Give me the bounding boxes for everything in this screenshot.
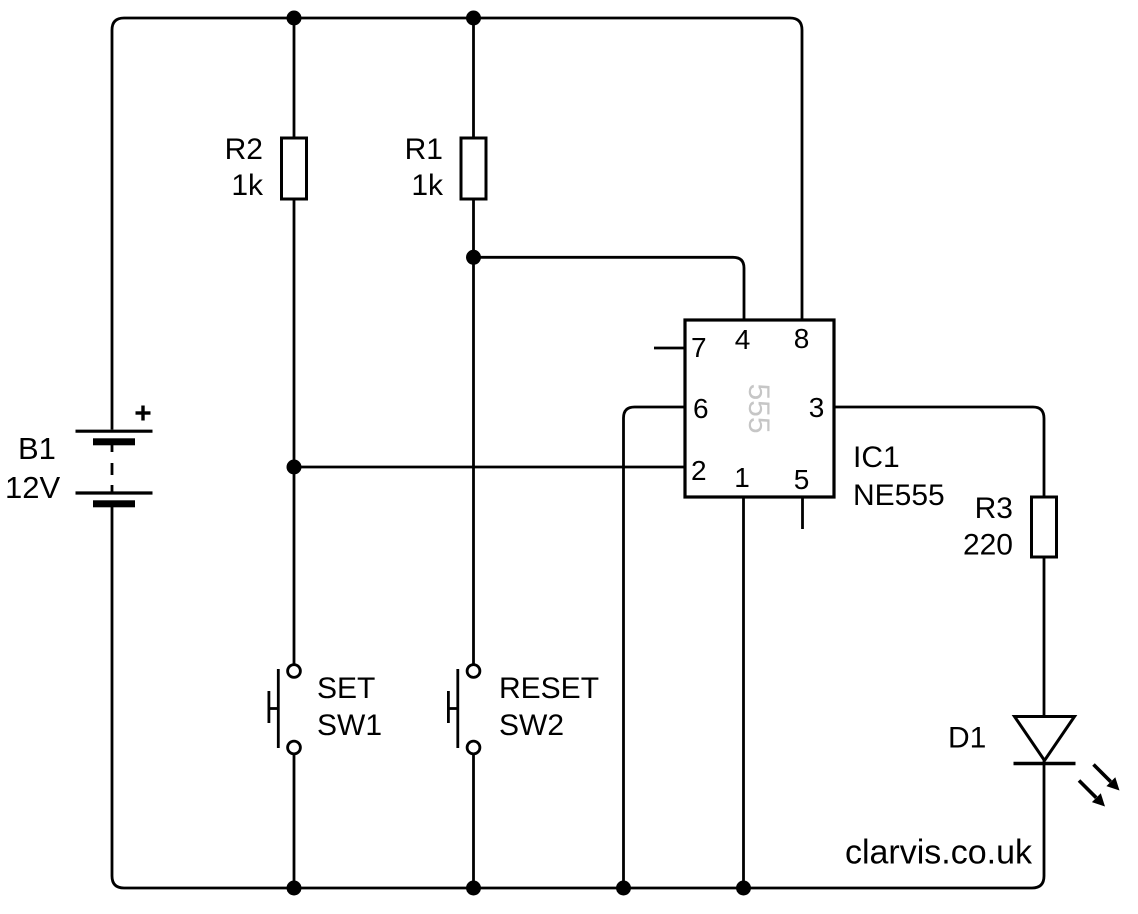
wire: pin 4 net (reset) <box>474 257 745 320</box>
wire: pin 5 stub <box>801 497 804 529</box>
svg-text:3: 3 <box>809 392 825 423</box>
switch SW2 <box>448 665 480 754</box>
svg-text:555: 555 <box>742 383 775 433</box>
wire: R2 column upper (top rail to SW1) <box>293 18 296 665</box>
junction dot R1 to pin 4 <box>466 250 481 265</box>
switch SW1 <box>269 665 301 754</box>
junction dot bottom rail at pin 6 net <box>616 881 631 896</box>
svg-text:SET: SET <box>317 672 375 705</box>
junction dot R2 to pin 2 <box>287 460 302 475</box>
resistor R3 <box>1032 497 1057 557</box>
svg-text:12V: 12V <box>5 470 60 505</box>
svg-text:220: 220 <box>963 529 1013 562</box>
junction dot top rail at R1 <box>466 11 481 26</box>
svg-text:clarvis.co.uk: clarvis.co.uk <box>845 834 1033 872</box>
svg-text:5: 5 <box>794 464 810 495</box>
svg-text:NE555: NE555 <box>853 479 945 512</box>
wire: pin 2 net (trigger) <box>294 466 685 469</box>
svg-text:IC1: IC1 <box>853 441 900 474</box>
svg-text:D1: D1 <box>948 722 986 755</box>
svg-text:R3: R3 <box>975 492 1013 525</box>
svg-text:B1: B1 <box>18 431 56 466</box>
wire: R1 column upper (top rail to SW2) <box>472 18 475 665</box>
LED light arrow 2 <box>1079 781 1105 807</box>
label R2 value <box>225 133 264 202</box>
junction dot bottom rail at SW1 <box>287 881 302 896</box>
svg-text:8: 8 <box>794 323 810 354</box>
wire: R2 column lower (SW1 to bottom rail) <box>293 754 296 888</box>
label IC1 NE555 <box>853 441 945 512</box>
junction dot top rail at R2 <box>287 11 302 26</box>
svg-text:RESET: RESET <box>499 672 599 705</box>
svg-text:1k: 1k <box>411 169 444 202</box>
svg-text:SW2: SW2 <box>499 709 564 742</box>
junction dot bottom rail at pin 1 net <box>736 881 751 896</box>
resistor R2 <box>282 138 307 199</box>
op-amp U1: IC1 NE555 box <box>685 320 834 497</box>
LED D1 <box>1014 717 1076 764</box>
svg-text:4: 4 <box>735 324 751 355</box>
svg-text:1k: 1k <box>231 169 264 202</box>
wire: pin 1 net (ground) <box>742 497 745 888</box>
wire: pin 6 net (threshold to 0V) <box>624 407 686 888</box>
label R3 value <box>963 492 1013 562</box>
junction dot bottom rail at SW2 <box>466 881 481 896</box>
svg-text:SW1: SW1 <box>317 709 382 742</box>
wire: R1 column lower (SW2 to bottom rail) <box>472 754 475 888</box>
svg-text:1: 1 <box>734 462 750 493</box>
svg-text:R1: R1 <box>405 133 443 166</box>
battery plus sign <box>136 406 151 421</box>
wire: V+ rail (left rail top, top rail, drop to pin 8) <box>112 18 802 430</box>
label RESET SW2 <box>499 672 599 742</box>
resistor R1 <box>461 138 486 199</box>
svg-text:R2: R2 <box>225 133 263 166</box>
svg-text:2: 2 <box>691 455 707 486</box>
label R1 value <box>405 133 444 202</box>
svg-text:7: 7 <box>691 332 707 363</box>
LED light arrow 1 <box>1094 765 1120 791</box>
label SET SW1 <box>317 672 382 742</box>
svg-text:6: 6 <box>693 393 709 424</box>
wire: 0V rail (left rail bottom, bottom rail, right vertical, pin 3 horizontal) <box>112 407 1044 888</box>
battery B1 <box>76 431 153 507</box>
wire: pin 7 stub <box>654 347 685 350</box>
